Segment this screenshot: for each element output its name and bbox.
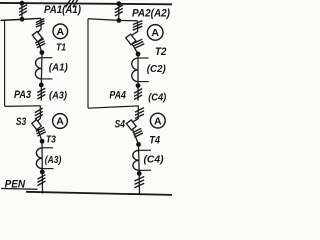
CT T3 top tap — [42, 147, 53, 149]
CT T2 winding arcs — [132, 58, 138, 82]
node: right tap on bus — [116, 1, 121, 6]
S4 blade lower segment — [132, 128, 138, 144]
svg-text:S4: S4 — [115, 118, 125, 130]
svg-text:(A3): (A3) — [45, 155, 62, 166]
slashes (C4) row — [134, 89, 142, 100]
ammeter PA3 — [53, 114, 68, 129]
CT T2 primary wire — [137, 54, 139, 86]
ammeter PA1 — [53, 24, 68, 39]
node: left tap on bus — [20, 1, 25, 6]
switch S3 blade upper segment — [37, 118, 41, 122]
CT T4 primary wire — [138, 144, 141, 173]
node below CT T2 — [136, 83, 141, 88]
Q1 lower slashes — [35, 39, 45, 48]
node below CT T3 — [40, 170, 45, 175]
node below S4 — [136, 142, 141, 147]
svg-text:(A1): (A1) — [49, 63, 69, 74]
svg-text:PA3: PA3 — [14, 89, 31, 101]
CT T4 bottom tap — [139, 169, 151, 171]
S4 fuse body — [126, 120, 136, 130]
3-phase slashes on left tap — [19, 5, 27, 16]
wire: right feeder to PEN bus — [138, 173, 140, 194]
Q2 upper slashes — [133, 21, 143, 31]
CT T2 bottom tap — [138, 81, 149, 83]
node: right tap lower junction — [116, 18, 121, 23]
svg-text:A: A — [151, 27, 159, 39]
CT T4 winding arcs — [133, 150, 139, 170]
Q1 upper slashes — [36, 19, 45, 28]
wire: right bypass vertical — [87, 19, 89, 108]
bus continuation slashes — [66, 0, 78, 7]
svg-text:A: A — [154, 115, 162, 127]
CT T1 top tap — [42, 57, 53, 59]
node below Q2 — [136, 52, 141, 57]
svg-text:T1: T1 — [56, 43, 66, 54]
wire: left horizontal from edge to switch corner — [1, 18, 42, 20]
slashes above S4 — [135, 108, 144, 119]
bus PEN (bottom) — [26, 192, 172, 195]
wire: right horizontal to switch corner — [88, 19, 138, 21]
3-phase slashes on right tap — [115, 5, 123, 16]
wire: left bypass lower horizontal — [5, 106, 41, 119]
node below S3 — [40, 139, 45, 144]
CT T2 top tap — [138, 57, 149, 59]
Q1 blade lower segment — [38, 40, 42, 52]
wire: right tap drop — [118, 4, 120, 21]
svg-text:T2: T2 — [155, 46, 167, 58]
svg-text:T3: T3 — [46, 133, 56, 145]
CT T3 primary wire — [41, 142, 43, 172]
node below Q1 — [40, 50, 45, 55]
switch S4 blade upper segment — [132, 119, 138, 122]
svg-text:A: A — [57, 26, 65, 38]
wire: feeder below CT T1 — [40, 85, 42, 101]
S3 blade lower segment — [37, 128, 42, 141]
node below CT T1 — [39, 83, 44, 88]
Q2 blade lower segment — [132, 43, 139, 54]
svg-text:T4: T4 — [149, 134, 160, 146]
Q2 lower slashes — [133, 39, 145, 48]
CT T1 bottom tap — [41, 78, 52, 80]
S3 lower slashes — [36, 127, 46, 136]
svg-text:PA1(A1): PA1(A1) — [44, 4, 81, 16]
PEN label line — [1, 188, 38, 191]
Q2 blade upper segment — [131, 32, 138, 36]
slashes above PEN bus (left) — [37, 175, 45, 186]
CT T1 winding arcs — [35, 58, 41, 79]
svg-text:(C2): (C2) — [147, 64, 167, 75]
wire: feeder to PEN bus — [41, 172, 43, 194]
switch-fuse Q1: entry wire — [40, 18, 42, 29]
CT T4 top tap — [139, 149, 151, 151]
wire: right feeder below CT T2 — [137, 86, 139, 101]
svg-text:(A3): (A3) — [49, 91, 68, 102]
CT T3 winding arcs — [36, 148, 42, 169]
svg-text:(C4): (C4) — [144, 154, 164, 166]
wire: left bypass vertical — [4, 20, 6, 107]
svg-text:(C4): (C4) — [148, 92, 167, 103]
Q1 blade upper segment — [37, 29, 41, 33]
svg-text:A: A — [56, 116, 64, 128]
S3 fuse body — [32, 120, 42, 130]
wire: left tap drop — [21, 3, 23, 19]
Q1 fuse body — [32, 31, 42, 41]
S4 lower slashes — [133, 128, 143, 137]
slashes above S3 — [35, 108, 43, 119]
bus L1 (top supply bus) — [0, 3, 172, 4]
CT T1 primary wire — [40, 53, 43, 85]
ammeter PA4 — [150, 113, 165, 128]
node: left tap lower junction — [20, 17, 25, 22]
slashes (A3) row — [37, 88, 45, 99]
Q2 fuse body — [126, 34, 136, 45]
switch-fuse Q2: entry wire — [137, 21, 139, 32]
node below CT T4 — [137, 171, 142, 176]
wire: right bypass lower horizontal — [88, 106, 138, 119]
ammeter PA2 — [147, 25, 163, 41]
svg-text:S3: S3 — [16, 116, 26, 128]
svg-text:PA4: PA4 — [109, 89, 126, 101]
svg-text:PA2(A2): PA2(A2) — [132, 7, 170, 19]
slashes above PEN bus (right) — [134, 177, 144, 188]
CT T3 bottom tap — [42, 168, 53, 170]
